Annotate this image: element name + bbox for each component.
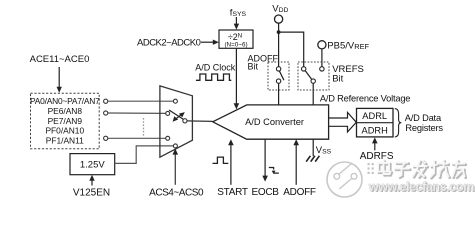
- wire VDD down: [278, 23, 280, 67]
- svg-text:Bit: Bit: [332, 74, 343, 85]
- bus arrow converter to registers: [329, 112, 357, 131]
- svg-text:÷2N: ÷2N: [228, 32, 242, 42]
- svg-text:V125EN: V125EN: [73, 187, 110, 198]
- svg-text:PF1/AN11: PF1/AN11: [46, 135, 84, 145]
- svg-text:ADCK2~ADCK0: ADCK2~ADCK0: [137, 37, 201, 48]
- pin PB5/VREF: [318, 41, 370, 52]
- regulator 1.25V box: [70, 154, 115, 175]
- wire V125EN enable arrow: [89, 175, 94, 186]
- svg-text:PB5/VREF: PB5/VREF: [327, 41, 369, 52]
- ellipsis dashed channels: [143, 118, 145, 136]
- svg-text:ADRL: ADRL: [362, 111, 387, 121]
- svg-text:(N=0~6): (N=0~6): [224, 42, 247, 49]
- watermark dot grid: [368, 163, 374, 174]
- mux contact c2: [166, 111, 170, 115]
- wire A/D clock to converter arrow: [234, 48, 240, 109]
- clock waveform glyph: [196, 74, 231, 80]
- prescaler divider box: [219, 30, 253, 49]
- svg-text:A/D Reference Voltage: A/D Reference Voltage: [320, 94, 410, 104]
- wire AN8 row to mux: [108, 112, 166, 114]
- switch ADOFF dashed box: [268, 62, 289, 90]
- pin circle AN11 row: [104, 136, 108, 140]
- svg-text:Registers: Registers: [405, 123, 443, 133]
- watermark logo circle: [327, 162, 362, 197]
- svg-text:EOCB: EOCB: [252, 187, 280, 198]
- wire fSYS arrow: [234, 17, 239, 30]
- wire VREFS switch to converter: [312, 83, 314, 105]
- wire PB5 to VREFS switch: [321, 49, 323, 67]
- svg-text:VDD: VDD: [272, 4, 288, 15]
- mux contact c1: [173, 99, 177, 103]
- watermark url text: [368, 180, 475, 195]
- wire ACE select arrow: [57, 67, 62, 93]
- svg-text:Bit: Bit: [248, 61, 259, 71]
- mux wiper line: [169, 110, 183, 119]
- svg-text:ACS4~ACS0: ACS4~ACS0: [149, 187, 204, 198]
- brace registers: [395, 109, 402, 137]
- svg-text:1.25V: 1.25V: [80, 160, 105, 171]
- svg-text:ADOFF: ADOFF: [283, 187, 316, 198]
- pulse glyph START: [213, 157, 229, 163]
- svg-text:www.elecfans.com: www.elecfans.com: [368, 180, 474, 194]
- mux contact c4 internal reference: [173, 144, 177, 148]
- svg-text:PE7/AN9: PE7/AN9: [48, 116, 83, 126]
- wire 1.25V to mux: [115, 146, 174, 164]
- wire ADCK arrow to prescaler: [201, 40, 219, 45]
- pin circle AN8 row: [104, 111, 108, 115]
- supply VDD: [272, 4, 288, 24]
- switch VREFS dashed box: [298, 62, 329, 90]
- svg-text:START: START: [217, 187, 248, 198]
- svg-text:A/D Converter: A/D Converter: [245, 117, 304, 127]
- svg-text:ACE11~ACE0: ACE11~ACE0: [30, 54, 90, 65]
- register box ADRL ADRH: [357, 108, 394, 136]
- junction VDD node: [277, 30, 281, 34]
- wire AN0 row to mux: [108, 100, 174, 102]
- analog mux U1 trapezoid: [160, 86, 193, 157]
- wire ACS select arrow: [173, 149, 179, 185]
- svg-text:ADRH: ADRH: [362, 125, 388, 135]
- ground symbol: [306, 156, 319, 162]
- pin circle AN0 row: [104, 99, 108, 103]
- svg-text:PA0/AN0~PA7/AN7: PA0/AN0~PA7/AN7: [30, 96, 100, 106]
- mux rotation arrow: [173, 112, 185, 122]
- wire ADRFS arrow: [372, 137, 378, 150]
- falling edge glyph EOCB: [269, 168, 279, 175]
- mux contact c3: [166, 136, 170, 140]
- svg-text:PF0/AN10: PF0/AN10: [45, 126, 84, 136]
- wire VDD branch to VREFS switch: [279, 32, 304, 67]
- wire Vss: [312, 139, 314, 156]
- A/D converter block: [213, 105, 329, 139]
- wire EOCB output arrow down: [262, 139, 268, 181]
- mux output circle: [183, 119, 187, 123]
- svg-text:PE6/AN8: PE6/AN8: [48, 106, 83, 116]
- wire ADOFF control arrow: [293, 139, 299, 185]
- svg-text:fSYS: fSYS: [230, 7, 247, 18]
- wire START arrow: [228, 139, 234, 185]
- svg-text:VSS: VSS: [316, 145, 332, 156]
- svg-text:A/D Data: A/D Data: [405, 113, 442, 123]
- wire AN11 row to mux: [108, 137, 166, 139]
- wire ADOFF switch to converter: [278, 83, 280, 105]
- svg-text:ADRFS: ADRFS: [360, 151, 394, 162]
- pin box PA0/AN0~PA7/AN7 PE6/AN8 PE7/AN9 PF0/AN10 PF1/AN11: [30, 93, 100, 149]
- wire mux output to converter: [187, 120, 213, 123]
- svg-text:A/D Clock: A/D Clock: [195, 62, 236, 72]
